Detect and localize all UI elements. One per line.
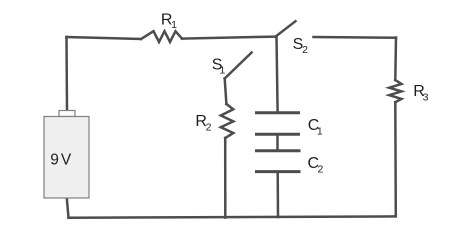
wire battery - to bottom [67,198,69,218]
svg-text:R3: R3 [413,83,428,103]
svg-text:R1: R1 [161,12,177,31]
wire top left (corner to R1) [67,37,142,39]
wire C2 to bottom [276,173,279,218]
wire right vertical upper (to R3) [394,38,397,81]
wire C1 to C2 connector [276,135,279,150]
switch S2 lever [276,21,296,36]
wire R2 to bottom [224,138,227,218]
capacitor C2 [255,149,301,152]
capacitor C1 [255,111,300,114]
wire node A down to C1 [277,37,278,112]
battery 9V body [44,117,89,199]
wire right vertical lower (R3 to bottom-right corner) [394,102,397,216]
svg-text:C1: C1 [308,117,323,137]
svg-text:V: V [61,151,72,168]
wire S2 right contact to top-right corner [314,36,397,39]
svg-text:S2: S2 [293,36,309,56]
resistor R2 [221,104,234,138]
svg-text:C2: C2 [308,155,324,176]
svg-text:S1: S1 [212,56,226,76]
switch S1 lever [225,53,252,79]
battery terminal tab [59,111,75,117]
resistor R3 [389,80,401,102]
svg-text:9: 9 [50,151,59,168]
wire S1 pivot to R2 [225,79,227,105]
resistor R1 [141,31,182,42]
wire left vertical (battery + to top-left corner) [65,37,68,111]
wire bottom [69,216,396,217]
wire R1 to node A [182,37,276,39]
svg-text:R2: R2 [195,113,211,133]
